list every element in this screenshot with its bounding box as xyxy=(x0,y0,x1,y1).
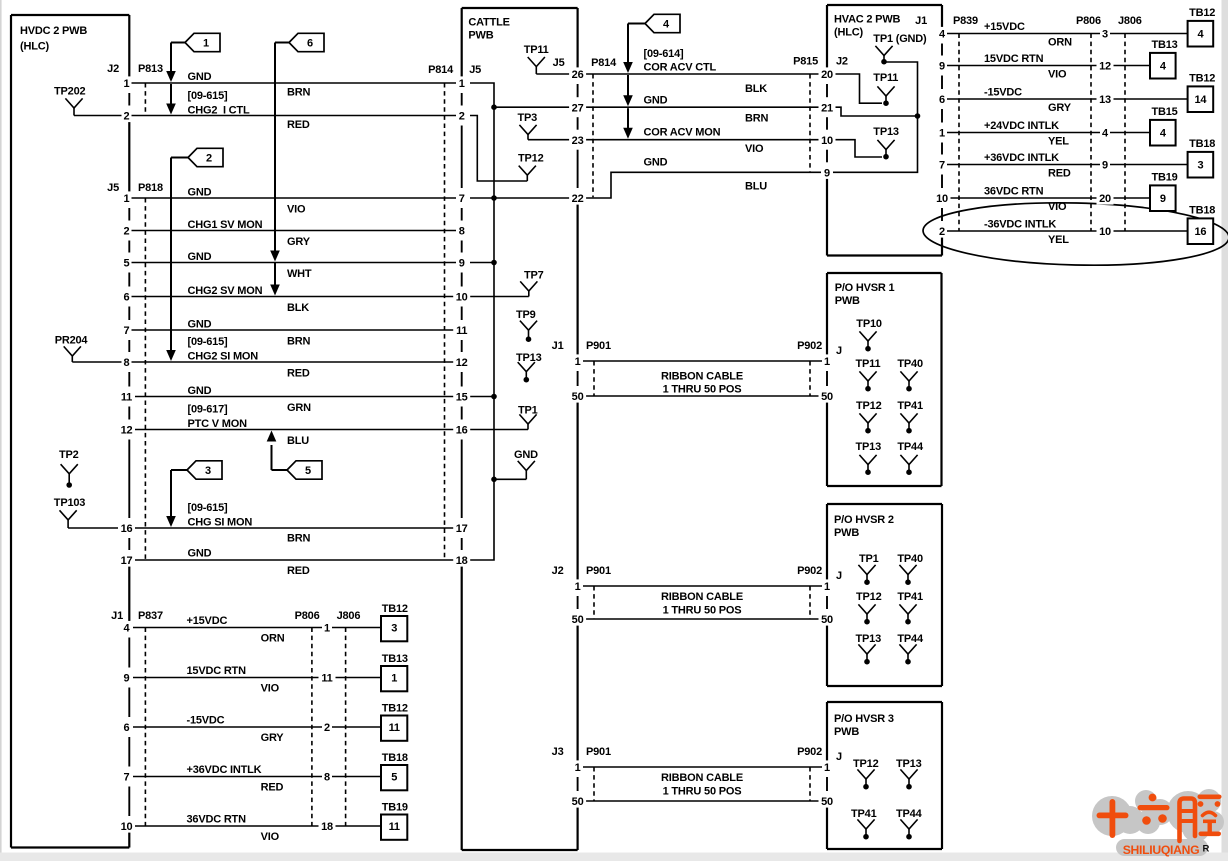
svg-text:27: 27 xyxy=(572,102,584,114)
terminal block TB18 position 5 xyxy=(381,752,408,790)
svg-text:TP13: TP13 xyxy=(856,441,882,453)
svg-text:J1: J1 xyxy=(552,340,564,352)
connector P806 (lower left) dashed line xyxy=(311,628,313,827)
wire CATTLE pin 16 to TP1 xyxy=(470,429,528,431)
pin number HVDC J1 pin 10 xyxy=(118,819,135,832)
box P/O HVSR 3 PWB xyxy=(827,702,942,849)
svg-text:2: 2 xyxy=(939,226,945,238)
wire GND / VIO : HVDC J5-1 to CATTLE J5-7 xyxy=(131,187,456,216)
wire CATTLE pin 9 stub to bus xyxy=(470,262,494,264)
test point TP11 (HVAC) xyxy=(873,72,898,106)
svg-text:GRY: GRY xyxy=(1048,102,1072,114)
wire +15VDC / ORN : HVAC J1-4 to TB12-4 xyxy=(947,21,1188,49)
flag 5 xyxy=(287,461,322,479)
connector label J2 / P813 xyxy=(107,63,163,75)
svg-text:GND: GND xyxy=(188,187,212,199)
pin number HVSR J pin 1 xyxy=(822,354,832,367)
svg-text:TP1: TP1 xyxy=(859,553,879,565)
pin number HVDC J2 pin 2 xyxy=(122,109,132,122)
flag 1 xyxy=(185,33,220,51)
svg-text:13: 13 xyxy=(1099,94,1111,106)
flag 3 xyxy=(187,461,222,479)
svg-text:(HLC): (HLC) xyxy=(20,41,49,53)
connector P901/J2 dashed line xyxy=(593,586,595,619)
wire GND / WHT : HVDC J5-5 to CATTLE J5-9 xyxy=(131,251,456,280)
svg-text:TP12: TP12 xyxy=(856,400,882,412)
wire -15VDC / GRY : HVDC J1-6 to TB12-11 xyxy=(133,715,381,745)
junction dot bus/pin7-22 row xyxy=(491,195,497,201)
svg-text:ORN: ORN xyxy=(261,633,285,645)
svg-text:18: 18 xyxy=(321,821,333,833)
flag 6 xyxy=(289,33,324,51)
svg-text:P806: P806 xyxy=(1076,15,1101,27)
svg-text:1 THRU 50 POS: 1 THRU 50 POS xyxy=(663,605,742,617)
wire CHG2 SI MON / RED : HVDC J5-8 to CATTLE J5-12 xyxy=(131,336,456,380)
test point TP12 (HVSR1) xyxy=(856,400,882,434)
connector P901/J3 dashed line xyxy=(593,767,595,801)
svg-text:P837: P837 xyxy=(138,610,163,622)
svg-text:R: R xyxy=(1203,844,1210,855)
svg-text:J1: J1 xyxy=(915,15,927,27)
svg-text:P902: P902 xyxy=(797,565,822,577)
svg-text:8: 8 xyxy=(459,226,465,238)
svg-text:RIBBON CABLE: RIBBON CABLE xyxy=(661,772,743,784)
svg-text:J2: J2 xyxy=(836,56,848,68)
svg-text:TP40: TP40 xyxy=(897,358,923,370)
HVAC internal GND bus from TP1 xyxy=(833,62,918,172)
svg-text:TP13: TP13 xyxy=(873,126,899,138)
pin number J806 pin 3 xyxy=(1100,27,1110,40)
connector J806 (lower left) dashed line xyxy=(345,628,347,827)
svg-text:2: 2 xyxy=(124,111,130,123)
connector P837 dashed line xyxy=(144,628,146,827)
svg-text:9: 9 xyxy=(939,61,945,73)
test point TP40 (HVSR2) xyxy=(897,553,923,585)
pin number HVSR J pin 50 xyxy=(819,794,836,807)
svg-text:TB18: TB18 xyxy=(382,752,408,764)
flag 4 xyxy=(645,14,680,32)
connector label J1 / P839 / P806 / J806 (HVAC right) xyxy=(915,15,1142,27)
pin number CATTLE J5 pin 16 xyxy=(453,423,470,436)
test point TP13 (HVSR3) xyxy=(896,758,922,790)
svg-text:11: 11 xyxy=(389,821,400,833)
connector label J1 / P837 / P806 / J806 xyxy=(111,610,360,622)
test point TP202 xyxy=(54,86,123,116)
svg-text:+15VDC: +15VDC xyxy=(187,615,228,627)
svg-text:1 THRU 50 POS: 1 THRU 50 POS xyxy=(663,786,742,798)
svg-text:7: 7 xyxy=(124,325,130,337)
wire GND / GRN : HVDC J5-11 to CATTLE J5-15 xyxy=(131,385,456,414)
pin number HVDC J1 pin 9 xyxy=(122,671,132,684)
pin number HVDC J5 pin 6 xyxy=(122,290,132,303)
connector P901/J1 dashed line xyxy=(593,361,595,396)
pin number HVDC J5 pin 17 xyxy=(118,553,135,566)
label TP1 (GND) HVAC xyxy=(873,33,927,45)
wire CHG2 SV MON / BLK : HVDC J5-6 to CATTLE J5-10 xyxy=(131,285,456,314)
svg-text:GND: GND xyxy=(188,319,212,331)
pin number J806 pin 4 xyxy=(1100,126,1110,139)
wire 15VDC RTN / VIO : HVAC J1-9 to TB13-4 xyxy=(947,53,1150,81)
wire HVAC pin 10 to TP13 xyxy=(833,140,882,157)
test point TP13 (HVSR2) xyxy=(856,633,882,665)
svg-text:TP3: TP3 xyxy=(518,112,538,124)
svg-text:5: 5 xyxy=(124,258,130,270)
junction dot bus/pin9 xyxy=(491,260,497,266)
svg-text:TB18: TB18 xyxy=(1189,138,1215,150)
svg-text:J1: J1 xyxy=(111,610,123,622)
svg-text:2: 2 xyxy=(324,722,330,734)
wire 36VDC RTN / VIO : HVAC J1-10 to TB19-9 xyxy=(947,186,1150,214)
box CATTLE PWB xyxy=(462,8,578,850)
svg-text:TB12: TB12 xyxy=(382,603,408,615)
svg-text:TB12: TB12 xyxy=(1189,7,1215,19)
svg-text:RED: RED xyxy=(287,119,310,131)
svg-text:GRY: GRY xyxy=(287,236,311,248)
test point TP7 xyxy=(520,270,543,297)
svg-text:15VDC RTN: 15VDC RTN xyxy=(984,53,1044,65)
terminal block TB12 position 3 xyxy=(381,603,408,641)
svg-text:3: 3 xyxy=(1102,29,1108,41)
pin number J806 pin 10 xyxy=(1097,224,1114,237)
test point TP1 (HVSR2) xyxy=(858,553,878,585)
wire 36VDC RTN / VIO : HVDC J1-10 to TB19-11 xyxy=(133,814,381,844)
svg-text:GND: GND xyxy=(188,71,212,83)
svg-text:P901: P901 xyxy=(586,565,611,577)
svg-text:P806: P806 xyxy=(295,610,320,622)
svg-text:TP202: TP202 xyxy=(54,86,85,98)
svg-text:18: 18 xyxy=(456,555,468,567)
svg-text:10: 10 xyxy=(121,821,133,833)
svg-text:3: 3 xyxy=(391,623,397,635)
test point TP13 (CATTLE) xyxy=(516,352,542,383)
test point TP9 xyxy=(516,309,537,342)
pin number CATTLE J5 pin 12 xyxy=(453,355,470,368)
wire +36VDC INTLK / RED : HVDC J1-7 to TB18-5 xyxy=(133,764,381,794)
wire HVAC pin 20 to TP11 xyxy=(833,74,882,103)
pin number P806 pin 18 xyxy=(319,819,336,832)
svg-text:50: 50 xyxy=(572,614,584,626)
pin number HVAC J1 pin 9 xyxy=(937,59,947,72)
svg-text:P813: P813 xyxy=(138,63,163,75)
junction dot bus/pin27 branch xyxy=(491,104,497,110)
connector J806 (right) dashed line xyxy=(1124,34,1126,232)
svg-text:CHG SI MON: CHG SI MON xyxy=(188,517,253,529)
connector label P815 / J2 (HVAC) xyxy=(793,56,848,68)
wire [09-615] CHG SI MON / BRN : HVDC J5-16 to CATTLE J5-17 xyxy=(131,502,456,545)
pin number CATTLE ribbon pin 50 xyxy=(569,389,586,402)
svg-text:1: 1 xyxy=(575,762,581,774)
watermark logo SHILIUQIANG xyxy=(1092,789,1224,857)
test point TP11 (CATTLE) xyxy=(524,44,570,74)
svg-text:J: J xyxy=(836,570,842,582)
pin number CATTLE ribbon pin 1 xyxy=(573,354,583,367)
svg-text:TP10: TP10 xyxy=(856,318,882,330)
svg-text:1 THRU 50 POS: 1 THRU 50 POS xyxy=(663,384,742,396)
svg-text:TP44: TP44 xyxy=(897,441,924,453)
pin number HVSR J pin 50 xyxy=(819,612,836,625)
highlight ellipse around -36VDC INTLK net xyxy=(922,200,1228,269)
arrow from flag 4 into COR ACV CTL, GND, COR ACV MON wires xyxy=(623,24,645,139)
svg-text:50: 50 xyxy=(572,391,584,403)
svg-text:CATTLE: CATTLE xyxy=(468,17,509,29)
CATTLE internal GND bus xyxy=(470,83,494,560)
connector P902/HVSR2 dashed line xyxy=(809,586,811,619)
svg-text:9: 9 xyxy=(1160,193,1166,205)
svg-text:36VDC RTN: 36VDC RTN xyxy=(187,814,247,826)
svg-text:1: 1 xyxy=(459,78,465,90)
test point TP44 (HVSR3) xyxy=(896,808,923,840)
svg-text:TP11: TP11 xyxy=(524,44,549,56)
svg-text:22: 22 xyxy=(572,193,584,205)
svg-text:2: 2 xyxy=(459,111,465,123)
svg-text:RED: RED xyxy=(287,368,310,380)
svg-text:TB13: TB13 xyxy=(1152,39,1178,51)
svg-text:12: 12 xyxy=(1099,61,1111,73)
connector P839 dashed line xyxy=(958,34,960,232)
svg-text:TB15: TB15 xyxy=(1152,106,1178,118)
pin number CATTLE ribbon pin 50 xyxy=(569,794,586,807)
test point TP41 (HVSR3) xyxy=(851,808,877,840)
svg-text:RED: RED xyxy=(261,782,284,794)
test point TP44 (HVSR1) xyxy=(897,441,924,475)
svg-text:[09-615]: [09-615] xyxy=(188,336,229,348)
svg-text:-15VDC: -15VDC xyxy=(984,87,1022,99)
pin number HVDC J2 pin 1 xyxy=(122,76,132,89)
svg-text:1: 1 xyxy=(324,623,330,635)
svg-text:50: 50 xyxy=(821,796,833,808)
pin number P806 pin 1 xyxy=(322,621,332,634)
svg-text:11: 11 xyxy=(121,392,132,404)
arrow from flag 1 into GND and CHG2 I CTL wires xyxy=(166,43,185,115)
svg-text:J806: J806 xyxy=(337,610,361,622)
ribbon cable J2/P901 to P902/HVSR2 xyxy=(552,565,842,619)
svg-text:9: 9 xyxy=(824,168,830,180)
svg-text:TB19: TB19 xyxy=(382,802,408,814)
svg-text:TP41: TP41 xyxy=(851,808,877,820)
test point TP103 xyxy=(54,497,123,528)
wire 15VDC RTN / VIO : HVDC J1-9 to TB13-1 xyxy=(133,665,381,695)
svg-text:[09-614]: [09-614] xyxy=(644,48,685,60)
svg-text:GND: GND xyxy=(514,449,538,461)
svg-text:BRN: BRN xyxy=(287,336,310,348)
arrow from flag 6 into GND and CHG2 SV MON wires xyxy=(270,43,289,296)
svg-text:P814: P814 xyxy=(591,57,617,69)
svg-text:VIO: VIO xyxy=(261,831,280,843)
test point TP12 (HVSR2) xyxy=(856,591,882,625)
test point TP11 (HVSR1) xyxy=(856,358,881,392)
terminal block TB13 position 1 xyxy=(381,653,408,691)
pin number CATTLE J5 pin 1 xyxy=(457,76,467,89)
wire +24VDC INTLK / YEL : HVAC J1-1 to TB15-4 xyxy=(947,120,1150,148)
svg-text:15VDC RTN: 15VDC RTN xyxy=(187,665,247,677)
wire bus to CATTLE pin 27 xyxy=(494,106,570,108)
pin number CATTLE J5 pin 9 xyxy=(457,256,467,269)
svg-text:5: 5 xyxy=(305,465,311,477)
pin number HVDC J5 pin 1 xyxy=(122,191,132,204)
svg-text:(HLC): (HLC) xyxy=(834,27,863,39)
test point TP44 (HVSR2) xyxy=(897,633,924,665)
pin number J806 pin 20 xyxy=(1097,191,1114,204)
connector P815 dashed line xyxy=(809,74,811,172)
test point TP1 (CATTLE) xyxy=(518,405,538,430)
svg-text:+36VDC INTLK: +36VDC INTLK xyxy=(984,152,1059,164)
wire -36VDC INTLK / YEL : HVAC J1-2 to TB18-16 xyxy=(947,219,1188,247)
svg-text:[09-615]: [09-615] xyxy=(188,90,229,102)
svg-text:1: 1 xyxy=(824,356,830,368)
page edge shading left xyxy=(0,0,2,861)
svg-text:J5: J5 xyxy=(107,182,119,194)
wire -15VDC / GRY : HVAC J1-6 to TB12-14 xyxy=(947,87,1188,115)
svg-text:GND: GND xyxy=(188,251,212,263)
wire GND / BRN : HVDC J5-7 to CATTLE J5-11 xyxy=(131,319,456,348)
pin number CATTLE J5 pin 11 xyxy=(453,323,470,336)
svg-text:12: 12 xyxy=(456,357,468,369)
pin number CATTLE J5 pin 2 xyxy=(457,109,467,122)
svg-text:TP11: TP11 xyxy=(873,72,898,84)
terminal block TB12 position 11 xyxy=(381,703,408,741)
svg-text:1: 1 xyxy=(203,38,209,50)
svg-text:J2: J2 xyxy=(107,63,119,75)
svg-text:COR ACV MON: COR ACV MON xyxy=(644,127,721,139)
svg-text:1: 1 xyxy=(124,78,130,90)
svg-text:7: 7 xyxy=(459,193,465,205)
svg-text:GRN: GRN xyxy=(287,402,311,414)
junction dot HVAC bus / pin 21 xyxy=(915,113,921,119)
svg-text:CHG2 SV MON: CHG2 SV MON xyxy=(188,285,263,297)
svg-text:+36VDC INTLK: +36VDC INTLK xyxy=(187,764,262,776)
svg-text:J5: J5 xyxy=(553,57,565,69)
arrow from flag 5 up into PTC V MON wire xyxy=(267,431,287,471)
pin number HVAC J2 pin 10 xyxy=(819,133,836,146)
connector label P814 / J5 (CATTLE left) xyxy=(428,64,481,76)
svg-text:23: 23 xyxy=(572,135,584,147)
svg-text:8: 8 xyxy=(324,772,330,784)
pin number CATTLE J5 pin 18 xyxy=(453,553,470,566)
svg-text:TP13: TP13 xyxy=(896,758,922,770)
svg-text:15: 15 xyxy=(456,392,468,404)
pin number J806 pin 9 xyxy=(1100,158,1110,171)
svg-text:10: 10 xyxy=(456,292,468,304)
svg-text:RED: RED xyxy=(1048,168,1071,180)
svg-text:12: 12 xyxy=(121,425,133,437)
svg-text:11: 11 xyxy=(389,722,400,734)
connector P814 (CATTLE left) dashed line xyxy=(444,83,446,560)
svg-text:GND: GND xyxy=(644,157,668,169)
svg-text:16: 16 xyxy=(456,425,468,437)
terminal block TB18 position 3 xyxy=(1188,138,1216,178)
svg-text:6: 6 xyxy=(124,722,130,734)
svg-text:RIBBON CABLE: RIBBON CABLE xyxy=(661,371,743,383)
flag 2 xyxy=(188,148,223,166)
pin number J806 pin 13 xyxy=(1097,92,1114,105)
connector P806 (right) dashed line xyxy=(1090,34,1092,232)
svg-text:8: 8 xyxy=(124,357,130,369)
arrow from flag 2 into CHG2 SI MON wire xyxy=(166,158,188,362)
pin number CATTLE J5 pin 17 xyxy=(453,521,470,534)
svg-text:GND: GND xyxy=(188,548,212,560)
svg-text:PWB: PWB xyxy=(834,527,859,539)
pin number CATTLE J5 pin 22 xyxy=(569,191,586,204)
pin number HVAC J2 pin 20 xyxy=(819,67,836,80)
svg-text:P902: P902 xyxy=(797,340,822,352)
test point TP12 (HVSR3) xyxy=(853,758,879,790)
svg-text:VIO: VIO xyxy=(261,683,280,695)
pin number HVAC J1 pin 1 xyxy=(937,126,947,139)
svg-text:26: 26 xyxy=(572,69,584,81)
wire GND / BRN : CATTLE 27 to HVAC J2-21 xyxy=(585,95,821,125)
wire CATTLE pin 7 to pin 22 row xyxy=(470,197,570,199)
svg-text:50: 50 xyxy=(572,796,584,808)
connector P813 dashed line xyxy=(144,83,146,116)
svg-text:BRN: BRN xyxy=(287,87,310,99)
pin number HVAC J1 pin 7 xyxy=(937,158,947,171)
svg-text:+15VDC: +15VDC xyxy=(984,21,1025,33)
svg-text:TP40: TP40 xyxy=(897,553,923,565)
terminal block TB19 position 9 xyxy=(1150,172,1178,212)
test point TP3 xyxy=(518,112,571,140)
svg-text:TP12: TP12 xyxy=(518,153,544,165)
pin number HVDC J5 pin 12 xyxy=(118,423,135,436)
svg-text:36VDC RTN: 36VDC RTN xyxy=(984,186,1044,198)
pin number CATTLE J5 pin 8 xyxy=(457,224,467,237)
wire bus to GND test point xyxy=(494,478,526,480)
pin number P806 pin 11 xyxy=(319,671,336,684)
svg-text:PWB: PWB xyxy=(468,30,493,42)
svg-text:TP7: TP7 xyxy=(524,270,544,282)
svg-text:TP12: TP12 xyxy=(853,758,879,770)
svg-text:GND: GND xyxy=(188,385,212,397)
svg-text:J: J xyxy=(836,751,842,763)
junction dot bus/pin15 xyxy=(491,394,497,400)
pin number HVDC J5 pin 2 xyxy=(122,224,132,237)
svg-text:6: 6 xyxy=(124,292,130,304)
pin number CATTLE ribbon pin 1 xyxy=(573,760,583,773)
svg-text:17: 17 xyxy=(121,555,133,567)
svg-text:7: 7 xyxy=(939,160,945,172)
pin number P806 pin 2 xyxy=(322,720,332,733)
pin number CATTLE ribbon pin 1 xyxy=(573,579,583,592)
svg-text:2: 2 xyxy=(206,153,212,165)
svg-text:HVAC 2 PWB: HVAC 2 PWB xyxy=(834,14,901,26)
svg-text:TB18: TB18 xyxy=(1189,205,1215,217)
svg-text:P818: P818 xyxy=(138,182,163,194)
svg-text:P/O HVSR 3: P/O HVSR 3 xyxy=(834,713,894,725)
connector label J5 / P818 xyxy=(107,182,163,194)
svg-text:+24VDC INTLK: +24VDC INTLK xyxy=(984,120,1059,132)
svg-text:VIO: VIO xyxy=(1048,69,1067,81)
svg-text:6: 6 xyxy=(307,38,313,50)
svg-text:P814: P814 xyxy=(428,64,454,76)
svg-text:J5: J5 xyxy=(469,64,481,76)
svg-text:21: 21 xyxy=(821,102,833,114)
pin number HVDC J5 pin 8 xyxy=(122,355,132,368)
terminal block TB12 position 4 xyxy=(1188,7,1216,47)
junction dot bus/GND branch xyxy=(491,477,497,483)
pin number HVSR J pin 50 xyxy=(819,389,836,402)
terminal block TB15 position 4 xyxy=(1150,106,1178,146)
test point TP13 (HVAC) xyxy=(873,126,899,160)
svg-text:TP103: TP103 xyxy=(54,497,85,509)
svg-text:P901: P901 xyxy=(586,746,611,758)
svg-text:J806: J806 xyxy=(1118,15,1142,27)
svg-text:CHG2 I CTL: CHG2 I CTL xyxy=(188,105,250,117)
svg-text:10: 10 xyxy=(1099,226,1111,238)
svg-text:TP12: TP12 xyxy=(856,591,882,603)
svg-text:[09-615]: [09-615] xyxy=(188,502,229,514)
svg-text:J: J xyxy=(836,345,842,357)
pin number HVAC J1 pin 6 xyxy=(937,92,947,105)
svg-text:BLK: BLK xyxy=(745,83,767,95)
